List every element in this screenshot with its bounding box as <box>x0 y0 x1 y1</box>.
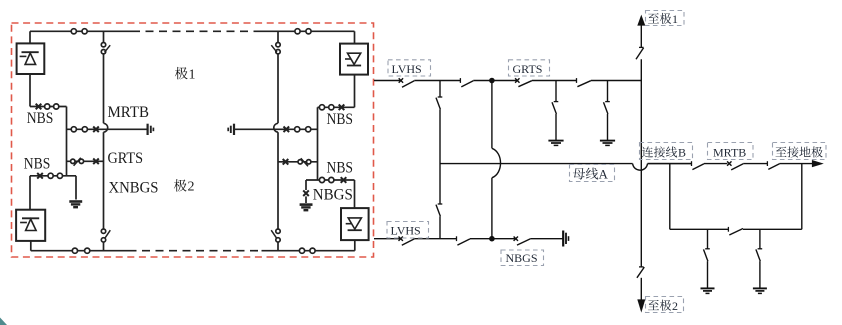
disconnector contacts on top bus left <box>71 29 76 34</box>
wire rail B upper segment <box>103 31 105 42</box>
disconnector on rail B2 bottom blade <box>271 230 277 238</box>
GRTS switch contacts <box>71 159 75 163</box>
wire pole line upper-mid <box>640 59 642 266</box>
wire pole-2 bottom bus dashed middle segment <box>129 250 262 252</box>
wire rail B middle segment <box>103 54 105 123</box>
wire lower feeder segment 2 <box>414 238 456 240</box>
label box to-pole-1 <box>646 11 685 26</box>
wire rail B2 upper segment <box>277 31 279 42</box>
disconnector blade LVHS upper <box>402 81 414 88</box>
disconnector contacts on bottom bus left <box>72 248 77 253</box>
wire bypass loop right side <box>801 164 803 230</box>
disconnector on rail B top contacts <box>101 43 105 47</box>
label box to-pole-2 <box>646 297 684 313</box>
ground symbol branch 2 <box>600 140 615 142</box>
wire pole-1 top bus right segment <box>257 30 355 32</box>
wire rail B lower segment <box>103 132 105 229</box>
disconnector on rail B2 bottom contacts <box>276 229 280 233</box>
wire LVHS upper feeder <box>374 80 401 82</box>
thyristor valve V3 (top-right) <box>340 44 368 75</box>
thyristor valve V4 (bottom-right) <box>341 208 369 240</box>
wire valve V1 anode lead <box>29 31 31 43</box>
label box GRTS <box>509 60 550 76</box>
wire rail B bottom stub <box>103 242 105 251</box>
contact tick ground drop 1 <box>705 248 710 250</box>
breaker NBS (bottom-left) contacts <box>48 173 53 178</box>
wire NBGS to ground <box>305 196 307 203</box>
contact tick pole line top switch <box>639 46 644 48</box>
breaker NBS (bottom-left) X contact <box>37 173 43 179</box>
wire bypass loop bottom left <box>670 228 728 230</box>
breaker NBS (top-right) X contact <box>339 105 345 111</box>
label box MRTB right <box>708 143 754 160</box>
label connection line B <box>642 147 653 158</box>
svg-text:A: A <box>599 167 609 182</box>
wire from junction dot down to hop <box>491 81 493 149</box>
wire rail B2 middle segment <box>277 54 279 123</box>
thyristor valve V2 (bottom-left) <box>16 210 45 241</box>
disconnector blade MRTB 3 <box>768 164 779 170</box>
contact tick GRTS <box>576 78 578 83</box>
contact tick LVHS vertical upper <box>438 96 443 98</box>
wire from hop down to lower dot <box>491 178 493 239</box>
svg-text:2: 2 <box>672 299 678 313</box>
wire rail B2 lower segment <box>277 132 279 229</box>
wire LVHS lower feeder <box>374 238 401 240</box>
breaker MRTB X contact <box>93 127 99 133</box>
thyristor valve V1 (top-left) <box>17 43 45 74</box>
wire ground drop 2 upper <box>759 229 761 248</box>
svg-text:2: 2 <box>188 180 195 195</box>
wire hop of rail B over MRTB branch <box>104 123 108 132</box>
disconnector blade MRTB 2 <box>731 164 743 170</box>
switch MRTB mirror branch wire <box>234 128 317 130</box>
wire pole-2 bottom bus right segment <box>262 250 355 252</box>
svg-text:NBS: NBS <box>24 156 51 173</box>
wire valve V2 lead bottom <box>30 241 32 251</box>
converter area red dashed border <box>12 23 374 257</box>
wire upper feeder segment 3 <box>473 80 492 82</box>
wire valve V1 cathode lead <box>29 74 31 107</box>
svg-text:MRTB: MRTB <box>108 104 150 121</box>
GRTS mirror switch contacts <box>307 160 311 164</box>
earth electrode symbol NBGS <box>562 231 564 247</box>
breaker GRTS X contact <box>93 159 99 165</box>
breaker NBS (bottom-left) wire <box>30 175 76 177</box>
wire pole-2 bottom bus left segment <box>31 250 129 252</box>
breaker MRTB X contact right <box>727 161 731 165</box>
wire valve V3 lead bottom <box>354 75 356 108</box>
wire GRTS feeder segment 2 <box>532 80 577 82</box>
wire rail A (left) <box>66 107 68 176</box>
breaker NBS (bottom-right) contacts <box>319 177 324 182</box>
ground symbol left neutral <box>69 200 82 203</box>
label to pole 2 <box>648 300 659 310</box>
wire rail A2 (right) <box>317 107 319 180</box>
svg-text:LVHS: LVHS <box>392 62 422 76</box>
earth electrode symbol at MRTB (left) <box>147 124 149 135</box>
label box bus A <box>570 165 615 182</box>
switch NBGS X contact <box>303 190 309 196</box>
label pole 1 <box>175 67 188 79</box>
MRTB mirror contacts <box>306 127 311 132</box>
contact tick bypass switch <box>727 227 729 232</box>
breaker GRTS X contact <box>515 78 519 82</box>
breaker NBS (top-left) wire <box>30 106 67 108</box>
disconnector blade LVHS vertical lower <box>436 205 440 217</box>
svg-text:NBS: NBS <box>327 111 354 128</box>
arrow to pole 2 <box>637 299 645 312</box>
disconnector blade branch 1 <box>552 102 556 114</box>
node junction dot lower <box>489 236 495 242</box>
contact tick <box>459 78 461 83</box>
contact tick branch 1 <box>554 101 559 103</box>
contact tick LVHS vertical lower <box>438 203 443 205</box>
label pole 2 <box>174 179 187 191</box>
disconnector XNBGS on rail B contacts <box>101 229 105 233</box>
wire connection line B segment <box>648 163 692 165</box>
disconnector blade LVHS lower 1 <box>402 239 415 245</box>
wire bypass loop left side <box>669 164 671 230</box>
svg-text:1: 1 <box>672 12 678 26</box>
svg-text:XNBGS: XNBGS <box>109 179 159 196</box>
wire pole line bottom <box>640 278 642 301</box>
ground symbol drop 2 <box>753 287 767 289</box>
svg-text:GRTS: GRTS <box>513 62 543 76</box>
arrow to pole 1 <box>637 15 645 26</box>
wire bus A dip under pole line <box>633 164 648 171</box>
ground symbol drop 1 <box>701 287 715 289</box>
breaker NBS (top-right) wire <box>318 106 355 108</box>
label box to earth electrode <box>773 143 827 160</box>
wire LVHS vertical upper <box>439 81 441 97</box>
disconnector blade NBGS <box>517 239 530 245</box>
svg-text:NBGS: NBGS <box>313 187 353 204</box>
wire valve V2 lead top <box>29 176 31 210</box>
disconnector blade 2 upper <box>461 81 473 87</box>
wire ground branch 2 upper <box>607 81 609 102</box>
switch GRTS branch wire <box>67 160 104 162</box>
wire ground drop 2 lower <box>759 261 761 288</box>
wire MRTB segment 2 <box>704 163 727 165</box>
wire ground branch 1 upper <box>555 81 557 102</box>
disconnector blade GRTS 1 <box>518 81 531 87</box>
arrow to earth electrode <box>812 160 824 167</box>
wire MRTB segment 3 <box>743 163 767 165</box>
wire NBGS grounding (right neutral) <box>305 180 307 190</box>
GRTS mirror switch blade <box>301 158 308 166</box>
wire bypass loop bottom right <box>743 228 802 230</box>
ground symbol right neutral <box>300 203 313 206</box>
disconnector on rail B2 top blade <box>271 45 277 52</box>
disconnector blade GRTS 2 <box>577 81 590 87</box>
wire ground drop 1 upper <box>707 229 709 248</box>
wire lower feeder segment 3 <box>470 238 492 240</box>
breaker NBS (bottom-right) X contact <box>341 177 347 183</box>
disconnector blade LVHS vertical upper <box>436 98 440 110</box>
disconnector blade branch 2 <box>604 102 608 114</box>
wire GRTS feeder segment 3 <box>591 80 642 82</box>
breaker NBGS X contact <box>514 237 518 241</box>
wire LVHS vertical middle <box>439 109 441 203</box>
disconnector on rail B top blade <box>105 45 111 52</box>
label box connection line B <box>640 143 693 160</box>
breaker GRTS mirror X contact <box>283 159 289 165</box>
contact tick ground drop 2 <box>758 248 763 250</box>
label box LVHS lower <box>387 222 429 239</box>
wire pole line top <box>640 24 642 47</box>
contact tick pole line bottom switch <box>639 266 644 268</box>
wire valve V4 lead top <box>354 180 356 208</box>
contact tick MRTB line 1 <box>691 161 693 166</box>
wire pole-1 top bus dashed middle segment <box>132 30 257 32</box>
disconnector contacts on top bus right <box>295 29 300 34</box>
wire GRTS feeder segment 1 <box>492 80 517 82</box>
GRTS switch blade <box>74 158 81 166</box>
wire NBGS segment <box>492 238 516 240</box>
disconnector blade bypass <box>729 229 743 236</box>
disconnector blade lower 2 <box>457 239 470 245</box>
ground symbol branch 1 <box>548 140 563 142</box>
contact tick lower 2 <box>456 236 458 241</box>
wire hop over bus A <box>492 148 501 178</box>
disconnector blade pole line top <box>636 48 644 60</box>
switch GRTS mirror branch wire <box>278 161 318 163</box>
breaker MRTB mirror X contact <box>284 127 290 133</box>
contact tick MRTB line 3 <box>766 161 768 166</box>
label box LVHS upper <box>388 60 431 76</box>
disconnector blade ground drop 2 <box>756 249 760 261</box>
MRTB branch contacts <box>71 127 76 132</box>
svg-text:NBS: NBS <box>327 160 354 177</box>
svg-text:1: 1 <box>189 67 196 82</box>
svg-text:NBS: NBS <box>27 110 54 127</box>
svg-text:MRTB: MRTB <box>713 146 746 160</box>
label bus A <box>573 168 585 180</box>
wire bus A right part <box>648 163 692 165</box>
wire ground branch 2 lower <box>607 114 609 140</box>
contact tick branch 2 <box>605 101 610 103</box>
wire ground branch 1 lower <box>555 114 557 140</box>
breaker LVHS lower X contact <box>399 237 403 241</box>
breaker NBS (top-left) X contact <box>36 104 42 110</box>
node junction dot upper <box>489 78 495 84</box>
wire ground drop 1 lower <box>707 261 709 288</box>
wire bus A left part <box>440 163 633 165</box>
label to earth electrode <box>776 147 787 157</box>
disconnector on rail B2 top contacts <box>276 43 280 47</box>
disconnector blade pole line bottom <box>637 267 644 278</box>
disconnector contacts on bottom bus right <box>299 248 304 253</box>
wire pole-1 top bus left segment <box>30 30 132 32</box>
wire rail B2 bottom stub <box>277 242 279 251</box>
label to pole 1 <box>648 13 659 23</box>
wire to ground (left neutral) <box>75 176 77 200</box>
wire valve V3 lead top <box>354 31 356 43</box>
wire to earth electrode NBGS <box>530 238 563 240</box>
switch MRTB branch wire <box>67 128 148 130</box>
breaker NBS (bottom-right) wire <box>306 179 355 181</box>
svg-text:B: B <box>678 146 686 160</box>
wire upper feeder segment 2 <box>414 80 460 82</box>
disconnector blade ground drop 1 <box>704 249 708 261</box>
label box NBGS <box>501 250 544 266</box>
breaker NBS (top-right) contacts <box>319 105 324 110</box>
svg-text:GRTS: GRTS <box>108 150 144 167</box>
wire hop of rail B2 over MRTB branch right <box>274 123 278 132</box>
disconnector XNBGS on rail B blade <box>105 230 111 238</box>
disconnector blade MRTB 1 <box>692 164 704 170</box>
earth electrode symbol at MRTB (right) <box>233 124 235 135</box>
breaker LVHS upper X contact <box>399 78 403 82</box>
wire to earth electrode line <box>780 163 813 165</box>
breaker NBS (top-left) contacts <box>45 104 50 109</box>
svg-text:NBGS: NBGS <box>506 251 538 265</box>
wire valve V4 lead bottom <box>354 240 356 251</box>
wire LVHS vertical bottom <box>439 216 441 238</box>
svg-text:LVHS: LVHS <box>391 224 421 238</box>
